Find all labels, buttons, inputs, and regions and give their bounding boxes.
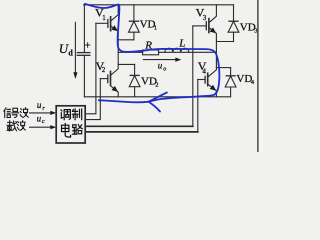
svg-text:3: 3 bbox=[254, 28, 257, 35]
svg-text:u: u bbox=[37, 113, 42, 123]
svg-text:3: 3 bbox=[203, 14, 207, 22]
svg-text:u: u bbox=[37, 100, 42, 110]
svg-text:1: 1 bbox=[102, 14, 106, 22]
svg-text:2: 2 bbox=[155, 82, 158, 89]
svg-text:L: L bbox=[178, 37, 185, 49]
svg-text:d: d bbox=[68, 48, 73, 57]
svg-text:1: 1 bbox=[154, 25, 157, 32]
svg-text:o: o bbox=[163, 67, 166, 73]
svg-text:2: 2 bbox=[102, 66, 106, 74]
svg-text:4: 4 bbox=[202, 67, 206, 75]
svg-text:c: c bbox=[42, 119, 45, 125]
svg-text:u: u bbox=[158, 61, 163, 71]
